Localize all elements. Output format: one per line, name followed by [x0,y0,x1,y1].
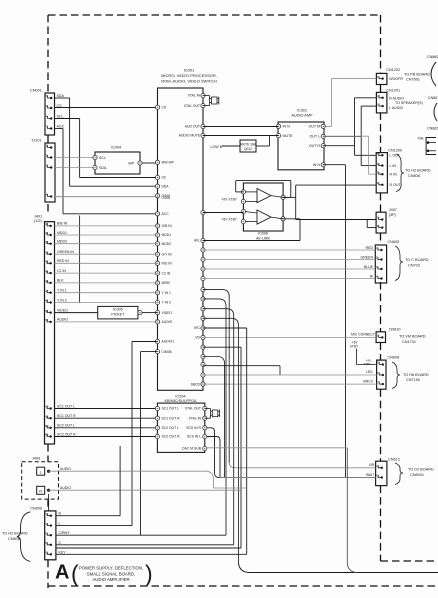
svg-text:SC1 OUT R: SC1 OUT R [162,416,181,420]
svg-text:L IN: L IN [390,164,397,168]
svg-text:MDD1: MDD1 [162,233,172,237]
svg-text:AUD OUT: AUD OUT [185,125,200,129]
svg-text:SC1 OUT L: SC1 OUT L [57,404,75,408]
svg-text:SC1 OUT L: SC1 OUT L [162,407,180,411]
svg-text:XTAL IN: XTAL IN [189,416,202,420]
svg-text:CN861: CN861 [428,96,438,100]
svg-text:SC2 OUT R: SC2 OUT R [162,435,181,439]
svg-text:KB/MIC/SULPPGA: KB/MIC/SULPPGA [164,399,197,403]
svg-text:MIC CONNECT: MIC CONNECT [351,333,375,337]
svg-text:TJ101: TJ101 [31,139,42,143]
svg-text:SC: SC [162,176,167,180]
svg-text:Y IN 1: Y IN 1 [57,289,67,293]
svg-text:POWER SUPPLY, DEFLECTION,: POWER SUPPLY, DEFLECTION, [79,566,143,571]
svg-text:Q012: Q012 [244,147,252,151]
svg-text:GREEN IN: GREEN IN [57,250,74,254]
svg-text:AUDIO AMPLIFIER: AUDIO AMPLIFIER [92,577,129,582]
svg-text:CN006: CN006 [30,507,42,511]
svg-text:CN7601: CN7601 [406,78,420,82]
svg-text:A: A [55,562,69,584]
svg-text:XTBY: XTBY [350,344,359,348]
svg-text:AUDIO AMP: AUDIO AMP [291,114,313,118]
svg-text:Y IN 2: Y IN 2 [162,301,171,305]
svg-text:XTAL OUT: XTAL OUT [185,407,201,411]
svg-text:ROM, AUDIO, VIDEO SWITCH: ROM, AUDIO, VIDEO SWITCH [161,79,217,84]
svg-text:DAC M SUB: DAC M SUB [182,447,202,451]
svg-text:CN1200: CN1200 [388,149,402,153]
svg-text:OUT L: OUT L [309,135,320,139]
svg-text:SDA: SDA [162,184,170,188]
svg-text:C/M08: C/M08 [162,350,172,354]
svg-text:SC2 OUT L: SC2 OUT L [57,424,75,428]
svg-text:J401: J401 [34,215,42,219]
svg-text:IC001: IC001 [184,68,195,73]
svg-text:RED: RED [366,246,374,250]
svg-text:CN610: CN610 [389,328,401,332]
svg-text:CN7150: CN7150 [406,378,420,382]
svg-text:CN703: CN703 [408,264,420,268]
svg-text:C/RMY: C/RMY [59,531,71,535]
svg-text:MDD1: MDD1 [57,231,67,235]
svg-text:42: 42 [45,222,49,226]
svg-text:IN N: IN N [283,125,291,129]
svg-text:J406: J406 [32,457,40,461]
svg-text:MICRO, VIDEO PROCESSOR,: MICRO, VIDEO PROCESSOR, [161,73,217,78]
svg-text:Y IN 1: Y IN 1 [162,291,171,295]
svg-text:R: R [39,489,42,494]
svg-text:XTAL IN: XTAL IN [188,94,201,98]
svg-text:SC2 OUT L: SC2 OUT L [162,426,180,430]
svg-text:LOW B: LOW B [211,145,223,149]
svg-text:SMALL SIGNAL BOARD,: SMALL SIGNAL BOARD, [87,571,135,576]
svg-text:CS: CS [162,105,167,109]
svg-text:TO H2 BOARD: TO H2 BOARD [405,169,431,173]
svg-text:CN806: CN806 [8,537,20,541]
svg-text:J407: J407 [389,208,397,212]
svg-text:OS06: OS06 [162,196,171,200]
svg-text:WOOFR: WOOFR [389,77,403,81]
svg-text:50: 50 [45,309,49,313]
svg-text:BLK: BLK [57,279,64,283]
svg-text:AUDIO: AUDIO [60,467,71,471]
svg-text:VIDEO: VIDEO [57,308,68,312]
svg-text:SC2 OUT R: SC2 OUT R [57,432,76,436]
svg-text:(: ( [71,561,79,587]
svg-text:TO H2 BOARD: TO H2 BOARD [2,532,28,536]
svg-text:A1: A1 [45,414,49,418]
svg-text:CN608: CN608 [387,355,399,359]
svg-text:SCL: SCL [99,156,106,160]
svg-text:TO D2 BOARD: TO D2 BOARD [408,468,434,472]
svg-text:KEY: KEY [59,550,67,554]
svg-text:IC004: IC004 [111,146,121,150]
svg-text:MDD2: MDD2 [162,242,172,246]
svg-text:L AUDIO: L AUDIO [389,106,403,110]
svg-text:RED IN: RED IN [57,259,69,263]
svg-text:40: 40 [45,269,49,273]
svg-text:TO C BOARD: TO C BOARD [405,258,429,262]
svg-text:C2 IN: C2 IN [57,269,66,273]
svg-text:IN N: IN N [313,163,321,167]
svg-text:IC204: IC204 [175,395,185,399]
svg-text:OUT R: OUT R [309,144,321,148]
svg-text:M090: M090 [162,281,171,285]
svg-text:R OUT: R OUT [390,183,402,187]
svg-text:G/Y IN: G/Y IN [162,252,173,256]
svg-text:GREEN: GREEN [361,256,374,260]
svg-text:VD: VD [195,336,200,340]
svg-text:X0E: X0E [418,137,425,141]
svg-text:52: 52 [45,318,49,322]
svg-text:B2: B2 [45,424,49,428]
svg-text:41: 41 [45,250,49,254]
svg-text:46: 46 [45,231,49,235]
svg-text:B/B IN: B/B IN [57,222,68,226]
svg-text:CN612: CN612 [388,458,400,462]
svg-text:AUDIO: AUDIO [60,486,71,490]
svg-text:TO SPEAKER(S): TO SPEAKER(S) [395,101,423,105]
svg-text:TO H8 BOARD: TO H8 BOARD [403,373,429,377]
svg-text:VIDEO: VIDEO [162,311,173,315]
svg-text:SC1 OUT R: SC1 OUT R [57,414,76,418]
svg-text:45: 45 [45,240,49,244]
svg-text:44: 44 [45,279,49,283]
svg-text:XIRCX: XIRCX [363,379,374,383]
svg-text:Y IN 2: Y IN 2 [57,298,67,302]
svg-text:R/D IN: R/D IN [162,262,173,266]
svg-text:MUTE: MUTE [283,134,294,138]
svg-text:XTBY: XTBY [363,362,371,366]
svg-text:+5V XTBY: +5V XTBY [222,197,238,201]
svg-text:MW WP: MW WP [162,161,175,165]
svg-text:IC301: IC301 [297,109,307,113]
svg-text:SCS IN R: SCS IN R [186,426,201,430]
svg-text:IC005: IC005 [113,307,123,311]
svg-text:SBCD: SBCD [191,382,201,386]
svg-text:PICKET: PICKET [111,312,125,316]
svg-text:L: L [59,522,61,526]
svg-text:R AUDIO: R AUDIO [389,96,404,100]
svg-text:XTAL OUT: XTAL OUT [184,104,200,108]
svg-text:MUTE SW: MUTE SW [240,142,256,146]
svg-text:AV LINK: AV LINK [256,237,270,241]
svg-text:): ) [145,561,153,587]
svg-text:BLUE: BLUE [364,265,374,269]
svg-text:IRC: IRC [194,326,200,330]
svg-text:+5V XTBY: +5V XTBY [222,217,238,221]
svg-text:43: 43 [45,260,49,264]
svg-text:WP: WP [128,162,134,166]
svg-text:TO VM BOARD: TO VM BOARD [399,335,426,339]
svg-text:AUDIO1: AUDIO1 [162,340,175,344]
svg-text:OUT M: OUT M [308,125,320,129]
svg-text:SDA: SDA [99,166,107,170]
svg-text:LED: LED [366,370,373,374]
svg-text:47: 47 [45,289,49,293]
svg-text:SCS IN L: SCS IN L [187,435,201,439]
svg-text:AUDIO: AUDIO [57,318,68,322]
svg-text:IC006: IC006 [258,232,268,236]
svg-text:G/B IN: G/B IN [162,224,173,228]
svg-text:AUDIO: AUDIO [162,320,173,324]
svg-text:CN1202: CN1202 [386,68,400,72]
svg-text:XIR: XIR [369,463,375,467]
svg-text:AVL: AVL [194,239,200,243]
svg-text:R IN: R IN [390,172,398,176]
svg-text:A2: A2 [45,405,49,409]
svg-text:TO PB BOARD: TO PB BOARD [404,73,430,77]
svg-text:CN8001: CN8001 [410,473,424,477]
svg-text:CN808: CN808 [408,174,420,178]
svg-text:MDD2: MDD2 [57,240,67,244]
svg-text:CN605: CN605 [387,240,399,244]
svg-text:B1: B1 [45,433,49,437]
svg-text:ACC: ACC [162,212,170,216]
svg-text:WAIT: WAIT [366,473,374,477]
svg-text:CN001: CN001 [30,89,42,93]
svg-text:AUDIO MUTE: AUDIO MUTE [179,134,201,138]
svg-text:(1/2): (1/2) [34,219,43,223]
svg-text:CN862: CN862 [427,127,438,131]
svg-text:CN1201: CN1201 [386,89,400,93]
svg-text:CN1701: CN1701 [402,340,416,344]
svg-text:(3P): (3P) [389,213,397,217]
svg-text:CN860: CN860 [427,55,438,59]
svg-text:48: 48 [45,299,49,303]
svg-text:C2 IN: C2 IN [162,271,171,275]
